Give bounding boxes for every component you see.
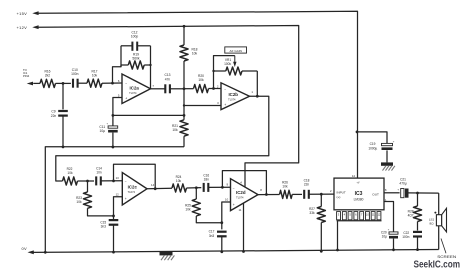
svg-text:10k: 10k bbox=[172, 128, 178, 132]
AF GAIN box bbox=[225, 47, 247, 53]
svg-text:10k: 10k bbox=[76, 200, 82, 204]
capacitor C18 22n bbox=[303, 190, 305, 199]
resistor R18 10k bbox=[183, 26, 185, 45]
op-amp IC2d (TL074) bbox=[231, 179, 259, 211]
svg-text:11: 11 bbox=[372, 212, 375, 216]
svg-text:+: + bbox=[125, 197, 127, 201]
ground bbox=[381, 162, 393, 165]
resistor R19 560k bbox=[120, 65, 122, 67]
resistor R16 2k2 bbox=[40, 79, 56, 87]
svg-text:10µ: 10µ bbox=[382, 235, 388, 239]
svg-text:PIN4: PIN4 bbox=[23, 74, 30, 78]
svg-text:10k: 10k bbox=[192, 52, 198, 56]
svg-text:14: 14 bbox=[151, 183, 155, 187]
svg-text:11: 11 bbox=[239, 208, 242, 212]
node bbox=[320, 193, 323, 196]
capacitor C10 100n bbox=[72, 79, 74, 88]
capacitor C19 1000u bbox=[382, 143, 393, 145]
IC3 ground pins 3,4,5,6,7,10,11,12 bbox=[337, 212, 341, 220]
capacitor C13 47n bbox=[164, 84, 166, 93]
svg-text:TL074: TL074 bbox=[228, 97, 236, 101]
svg-text:10k: 10k bbox=[176, 179, 182, 183]
node bbox=[256, 95, 259, 98]
node bbox=[112, 251, 115, 254]
svg-text:2k2: 2k2 bbox=[45, 74, 50, 78]
node bbox=[220, 221, 223, 224]
wire: ground return bbox=[45, 147, 184, 253]
wire bbox=[78, 82, 87, 84]
svg-text:18n: 18n bbox=[204, 178, 210, 182]
svg-text:4Ω7: 4Ω7 bbox=[408, 214, 414, 218]
svg-text:10k: 10k bbox=[92, 74, 98, 78]
svg-text:12: 12 bbox=[377, 212, 380, 216]
resistor R20 10k bbox=[184, 88, 194, 90]
wire bbox=[56, 82, 71, 84]
svg-text:10: 10 bbox=[366, 212, 369, 216]
node bbox=[183, 87, 186, 90]
node bbox=[416, 192, 419, 195]
svg-text:0V: 0V bbox=[22, 246, 28, 251]
svg-text:−: − bbox=[233, 187, 235, 191]
wire: IC2d feedback loop bbox=[222, 171, 266, 195]
svg-text:+: + bbox=[125, 97, 127, 101]
node: junction at pin6 bbox=[111, 82, 114, 85]
node bbox=[112, 146, 115, 149]
wire: feedback right bbox=[150, 46, 152, 89]
node bbox=[44, 251, 47, 254]
svg-text:33k: 33k bbox=[309, 211, 315, 215]
resistor R27 33k bbox=[320, 194, 322, 206]
node bbox=[112, 215, 115, 218]
resistor R28 4R7 bbox=[417, 193, 419, 206]
wire: pin 10 network bbox=[222, 202, 231, 229]
svg-text:LM380: LM380 bbox=[354, 197, 364, 201]
svg-text:3n3: 3n3 bbox=[101, 224, 107, 228]
svg-text:IC2c: IC2c bbox=[128, 184, 138, 189]
svg-text:+15V: +15V bbox=[17, 11, 28, 16]
resistor R26 10k bbox=[280, 190, 293, 198]
svg-text:22n: 22n bbox=[51, 114, 57, 118]
svg-text:3n3: 3n3 bbox=[209, 234, 215, 238]
wire: pin 3 to bias line bbox=[184, 105, 221, 107]
node bbox=[154, 187, 157, 190]
node bbox=[416, 248, 419, 251]
wire: ground bus under IC3 bbox=[337, 220, 382, 222]
svg-text:22n: 22n bbox=[304, 183, 310, 187]
svg-text:IC3: IC3 bbox=[355, 191, 363, 197]
svg-text:TL074: TL074 bbox=[129, 91, 137, 95]
op-amp IC2b (TL074) bbox=[221, 83, 250, 110]
wire: pin 11 to 0V bbox=[243, 203, 245, 252]
wire: pin 8 output bbox=[384, 192, 400, 194]
node: R18 top junction on +12V rail bbox=[183, 25, 186, 28]
svg-text:OUT: OUT bbox=[372, 193, 379, 197]
svg-text:IC2b: IC2b bbox=[228, 92, 238, 97]
node bbox=[195, 186, 198, 189]
capacitor C22 100n bbox=[413, 231, 422, 233]
capacitor C11 10u bbox=[112, 115, 114, 125]
capacitor C9 22n bbox=[62, 83, 64, 109]
svg-text:TL074: TL074 bbox=[236, 196, 244, 200]
capacitor C15 3n3 bbox=[109, 219, 119, 221]
svg-text:+V: +V bbox=[357, 181, 360, 184]
node bbox=[392, 248, 395, 251]
node bbox=[265, 193, 268, 196]
svg-text:+12V: +12V bbox=[17, 25, 28, 30]
wire: pin 1 decoupling bbox=[384, 202, 394, 232]
svg-text:470µ: 470µ bbox=[399, 182, 406, 186]
wire: feedback left bbox=[113, 46, 122, 83]
speaker LS1 8ohm bbox=[436, 215, 441, 226]
svg-text:47n: 47n bbox=[165, 77, 171, 81]
svg-text:12: 12 bbox=[116, 192, 120, 196]
wire bbox=[409, 192, 439, 194]
svg-text:10k: 10k bbox=[198, 78, 204, 82]
svg-text:+: + bbox=[233, 203, 235, 207]
node bbox=[112, 179, 115, 182]
wire: branch to C19 bbox=[357, 132, 387, 143]
op-amp IC2a (TL074) bbox=[122, 74, 151, 104]
wire: pin 12 network bbox=[114, 197, 123, 220]
svg-text:SCREEN: SCREEN bbox=[437, 255, 456, 259]
resistor R21 10k bbox=[180, 120, 188, 136]
svg-text:14: 14 bbox=[352, 174, 356, 178]
wire: bias line to vertical bbox=[113, 114, 184, 116]
op-amp IC2c (TL074) bbox=[122, 173, 147, 205]
resistor R22 10k bbox=[63, 177, 78, 185]
svg-text:100n: 100n bbox=[71, 72, 79, 76]
capacitor C12 100p bbox=[121, 45, 132, 47]
svg-text:100p: 100p bbox=[131, 35, 139, 39]
node bbox=[86, 180, 89, 183]
resistor R23 10k bbox=[87, 181, 89, 192]
capacitor C17 3n3 bbox=[217, 231, 227, 233]
svg-text:TL074: TL074 bbox=[128, 190, 136, 194]
wire: pin5 to C11 node bbox=[113, 98, 122, 116]
wire bbox=[102, 82, 122, 84]
node A bbox=[62, 82, 65, 85]
node bbox=[212, 87, 215, 90]
capacitor C21 470u bbox=[401, 189, 404, 198]
node bbox=[62, 145, 65, 148]
wire: IC2c output bbox=[147, 187, 172, 190]
node bbox=[242, 250, 245, 253]
svg-text:−: − bbox=[224, 88, 226, 92]
svg-text:560k: 560k bbox=[132, 57, 140, 61]
node bbox=[112, 114, 115, 117]
resistor R24 10k bbox=[172, 184, 187, 192]
resistor R25 10k bbox=[195, 188, 197, 199]
svg-text:AF GAIN: AF GAIN bbox=[230, 49, 242, 53]
wire: IC2c feedback loop bbox=[114, 164, 156, 189]
svg-text:13: 13 bbox=[116, 176, 120, 180]
ground (chassis) on 0V rail bbox=[160, 252, 173, 255]
node bbox=[183, 114, 186, 117]
op-amp IC3 LM380 bbox=[334, 178, 384, 210]
svg-text:100n: 100n bbox=[402, 235, 409, 239]
svg-text:10k: 10k bbox=[185, 207, 191, 211]
node bbox=[221, 186, 224, 189]
capacitor C20 10u bbox=[389, 232, 398, 234]
potentiometer VR1 100k (AF GAIN) bbox=[214, 56, 235, 89]
wire: IC2d output bbox=[258, 194, 280, 196]
svg-text:IC2a: IC2a bbox=[130, 85, 140, 90]
svg-text:100k: 100k bbox=[224, 62, 231, 66]
wire bbox=[33, 82, 40, 84]
wire: IC2b output routed to IC2c input bbox=[56, 96, 269, 181]
svg-text:10: 10 bbox=[225, 198, 229, 202]
svg-text:(+): (+) bbox=[337, 195, 341, 199]
wire: IC2a output bbox=[151, 88, 166, 90]
svg-text:−: − bbox=[125, 180, 127, 184]
wire: speaker to 0V bbox=[438, 226, 440, 250]
resistor R17 10k bbox=[87, 79, 102, 87]
node: pin14 / C19 branch bbox=[356, 131, 359, 134]
node bbox=[220, 250, 223, 253]
capacitor C16 18n bbox=[196, 187, 201, 189]
svg-text:10k: 10k bbox=[282, 184, 288, 188]
svg-text:SeekIC.com: SeekIC.com bbox=[414, 260, 460, 270]
svg-text:10n: 10n bbox=[96, 171, 102, 175]
svg-text:1000µ: 1000µ bbox=[368, 146, 377, 150]
wire: VR1 to output bbox=[256, 71, 258, 96]
svg-text:IC2d: IC2d bbox=[236, 190, 246, 195]
capacitor C14 10n bbox=[88, 180, 95, 182]
wire: to speaker bbox=[438, 193, 440, 215]
svg-text:10µ: 10µ bbox=[100, 129, 106, 133]
svg-text:10k: 10k bbox=[67, 171, 73, 175]
svg-text:−: − bbox=[125, 82, 127, 86]
node bbox=[320, 250, 323, 253]
node bbox=[336, 249, 339, 252]
svg-text:+: + bbox=[224, 103, 226, 107]
